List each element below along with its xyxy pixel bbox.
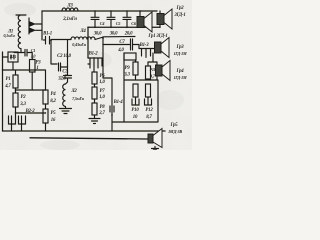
ground under L2 [60,109,72,114]
capacitor C5 [107,11,115,27]
svg-text:10ГД-3В: 10ГД-3В [168,129,182,134]
svg-text:С1: С1 [31,48,36,53]
svg-text:Р8: Р8 [100,105,106,110]
svg-text:Гр3: Гр3 [176,45,185,50]
switch B2-2 sockets [9,113,46,131]
wire: row y90 [16,89,46,91]
svg-text:С2 10,0: С2 10,0 [57,54,72,59]
wire: box around R10/R12 [124,53,158,122]
wire: Gr2 leads [159,11,161,28]
svg-text:С7: С7 [119,40,125,45]
wire: lower bus [88,27,160,58]
svg-text:3ГД-1: 3ГД-1 [173,13,185,18]
svg-text:1,0: 1,0 [99,80,105,85]
capacitor C1 [14,50,32,60]
inductor L3 [62,8,78,11]
resistor R10 [133,84,138,97]
switch B1-4 [103,78,124,131]
capacitor C2 [59,63,68,71]
resistor R11 [146,66,151,79]
svg-text:В1-4: В1-4 [113,100,124,105]
svg-text:В1-3: В1-3 [139,43,150,48]
svg-text:В1-1: В1-1 [42,32,52,37]
resistor R9 [124,53,136,60]
resistor R8 [92,103,97,115]
wire: C2 chain [51,40,57,64]
svg-text:1: 1 [36,66,38,71]
svg-text:Р1: Р1 [6,77,11,82]
capacitor C4 [91,11,99,27]
inductor L2 [63,84,66,108]
switch B1-2 contacts [88,58,102,72]
svg-text:1ГД-1М: 1ГД-1М [174,51,187,56]
loudspeaker Gr1 [137,12,152,32]
wire: bottom bus [3,130,166,132]
svg-text:Р6: Р6 [100,74,106,79]
loudspeaker Gr3 [155,38,170,58]
capacitor C6 [123,11,131,27]
wire to L4 [52,40,72,68]
svg-text:Р2: Р2 [21,95,27,100]
svg-text:Гр1 3ГД-1: Гр1 3ГД-1 [147,34,167,39]
loudspeaker Gr2 [157,9,172,29]
svg-text:3,3: 3,3 [19,102,26,107]
svg-text:С3: С3 [62,70,68,75]
svg-text:30,0: 30,0 [93,32,102,37]
resistor R7 [92,87,97,99]
capacitor C7 [103,39,139,50]
wire: Gr1 lead [139,11,141,17]
transformer taps [29,18,42,34]
svg-text:2,7: 2,7 [98,111,105,116]
svg-text:Гр4: Гр4 [176,69,185,74]
ground under Gr5 [152,147,159,151]
svg-text:7,5мГн: 7,5мГн [72,96,85,101]
inductor L1 [16,15,26,53]
svg-text:3,3: 3,3 [123,73,130,78]
socket under R10 [132,97,139,105]
svg-text:Л3: Л3 [66,4,73,9]
svg-text:Р7: Р7 [100,89,106,94]
resistor R12 [146,84,151,97]
wire: drop from top bus [41,11,43,40]
capacitor C3 [64,67,72,84]
wire: left border [2,52,4,131]
inductor L4 [71,37,95,40]
svg-text:В2-2: В2-2 [25,109,36,114]
svg-text:0,1мГн: 0,1мГн [3,33,15,38]
wire: Gr5 line [30,138,148,139]
junction dots [2,10,147,116]
socket under R12 [145,97,152,105]
svg-text:1,0: 1,0 [99,95,105,100]
svg-text:Р12: Р12 [145,108,153,113]
resistor R5 [43,109,48,123]
resistor R1 [13,75,18,88]
svg-text:С4: С4 [100,21,105,26]
svg-text:Л4: Л4 [79,29,86,34]
svg-text:4,0: 4,0 [117,48,124,53]
svg-text:0,43мГн: 0,43мГн [72,42,86,47]
svg-text:8,7: 8,7 [146,115,152,120]
svg-text:Р5: Р5 [51,111,57,116]
resistor R3 [30,60,36,73]
svg-text:Л2: Л2 [70,89,77,94]
switch B1-1 contacts [44,37,52,45]
switch B1-3 + wire to Gr3 [139,49,155,57]
svg-text:Р11: Р11 [150,67,156,72]
svg-text:Р10: Р10 [131,108,139,113]
wire: speaker-resistor net [136,53,158,66]
svg-text:20,0: 20,0 [124,32,133,37]
loudspeaker Gr5 [148,129,162,148]
wire L4 to node [95,37,135,79]
svg-text:1ГД-1М: 1ГД-1М [174,75,187,80]
svg-text:8,2: 8,2 [50,99,56,104]
input jack box [8,52,18,62]
wire: top bus [42,10,157,12]
svg-text:В2-1: В2-1 [9,55,17,59]
svg-text:Р3: Р3 [36,61,42,66]
svg-text:Гр2: Гр2 [176,6,185,11]
svg-text:С5: С5 [116,21,121,26]
resistor R4 [43,90,48,104]
svg-text:Р9: Р9 [125,66,131,71]
ground under R8 [89,119,100,124]
svg-text:В1-2: В1-2 [88,52,99,57]
paper background [0,0,192,150]
loudspeaker Gr4 [156,61,171,81]
svg-text:30,0: 30,0 [109,32,118,37]
svg-text:Р4: Р4 [51,92,57,97]
svg-text:32,0: 32,0 [57,77,66,82]
resistor R6 [92,72,97,84]
wire: row y70 [3,70,46,90]
svg-text:2,1мГн: 2,1мГн [62,17,77,22]
svg-text:4,7: 4,7 [4,84,11,89]
svg-text:Гр5: Гр5 [170,123,179,128]
resistor R2 [13,93,18,107]
